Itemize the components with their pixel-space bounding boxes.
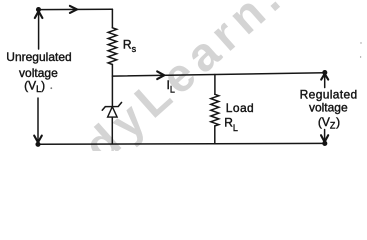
arrowhead up at right node bbox=[321, 74, 328, 80]
wire load top bbox=[214, 75, 216, 95]
arrowhead down at bottom-left node bbox=[34, 136, 42, 143]
wire top-left vertical (up-arrow shaft) bbox=[38, 13, 40, 49]
svg-text:(VL): (VL) bbox=[24, 79, 45, 95]
speck after (VL) bbox=[50, 87, 52, 89]
wire vertical from corner to Rs bbox=[111, 9, 113, 28]
arrowhead up at top-left node bbox=[35, 11, 43, 18]
watermark StudyLearn. bbox=[3, 0, 294, 237]
wire bottom horizontal bbox=[38, 142, 325, 145]
svg-text:Load: Load bbox=[226, 101, 254, 115]
resistor RL zigzag bbox=[211, 94, 219, 126]
wire right bottom (down-arrow shaft) bbox=[324, 130, 326, 142]
wire Rs bottom to zener top bbox=[111, 65, 113, 107]
wire right top (up-arrow shaft under dot) bbox=[324, 76, 326, 88]
zener diode cathode bar with bent ends bbox=[102, 102, 121, 110]
svg-text:Unregulated: Unregulated bbox=[6, 50, 71, 64]
arrowhead right on top wire bbox=[70, 6, 77, 13]
node dot middle-right bbox=[322, 70, 327, 75]
zener diode anode triangle bbox=[108, 107, 118, 117]
wire zener bottom bbox=[111, 117, 113, 143]
arrowhead down at bottom-right node bbox=[321, 135, 328, 142]
node dot top-left bbox=[36, 7, 41, 12]
node dot bottom-left bbox=[35, 142, 40, 147]
node dot bottom-right bbox=[322, 141, 327, 146]
wire middle horizontal (IL wire) bbox=[112, 73, 324, 76]
wire bottom-left vertical (down-arrow shaft) bbox=[37, 98, 39, 142]
svg-text:voltage: voltage bbox=[309, 100, 348, 114]
wire top horizontal bbox=[39, 8, 113, 10]
wire load bottom bbox=[214, 126, 216, 144]
svg-text:(VZ): (VZ) bbox=[318, 115, 340, 130]
resistor Rs zigzag bbox=[108, 28, 117, 65]
arrowhead IL on middle wire bbox=[157, 71, 164, 79]
